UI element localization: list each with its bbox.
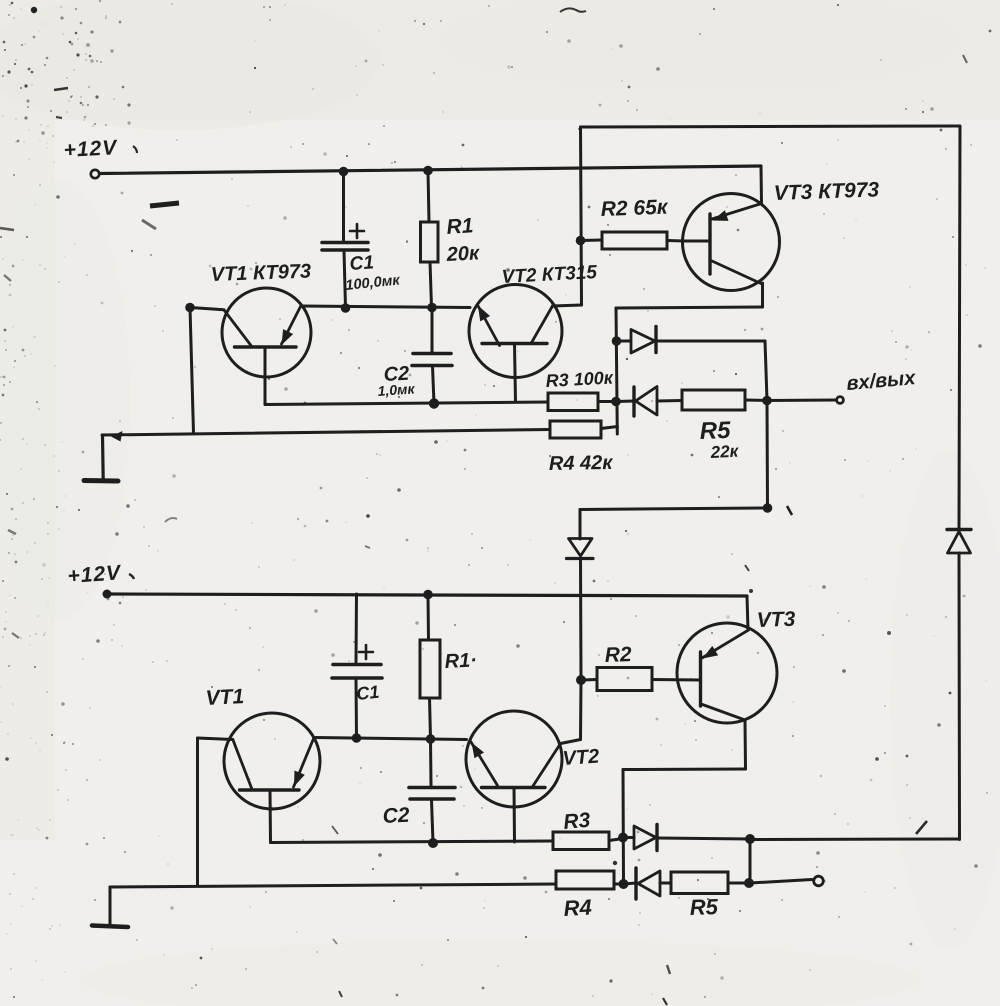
junction dot at VT1 left corner	[185, 303, 195, 313]
junction: R1/C2 node (bottom)	[426, 734, 436, 744]
svg-text:R5: R5	[699, 417, 731, 445]
wire: bus y738 left corner to VT1	[198, 738, 233, 740]
transistor VT1 (bottom)	[224, 713, 320, 809]
resistor R4 (bottom)	[556, 871, 614, 889]
+12V input terminal (top)	[91, 170, 99, 178]
wire: VD3 cathode down to bottom R2 node	[579, 559, 583, 680]
ground symbol (bottom)	[109, 887, 112, 924]
svg-text:100,0мк: 100,0мк	[345, 272, 401, 294]
resistor R4 (top) 42к	[550, 421, 601, 438]
wire: VT2 collector to x580 vertical (bottom)	[561, 740, 581, 744]
diode VD1 (bottom)	[623, 836, 634, 839]
svg-text:22к: 22к	[709, 442, 740, 463]
wire: VT1 base lead down	[264, 348, 267, 405]
wire: y307 bus VT1 to VT2	[301, 306, 470, 308]
junction: R1 to +12V rail	[423, 166, 433, 176]
svg-text:R1·: R1·	[444, 649, 477, 673]
wire: VT2 base lead	[515, 344, 516, 402]
wire: x580 from R2 node down to VT2 collector	[579, 680, 583, 740]
svg-text:R2 65к: R2 65к	[600, 196, 669, 221]
junction: R2 node (bottom)	[576, 675, 586, 685]
junction: C1 bottom on bus	[341, 303, 351, 313]
svg-text:VT2: VT2	[562, 745, 600, 770]
resistor R2 (top) 65к	[581, 239, 603, 243]
wire: to output terminal (bottom)	[750, 880, 812, 884]
+12V terminal (bottom)	[103, 590, 112, 599]
svg-text:C2: C2	[382, 804, 410, 828]
wire: VT1 collector node to left corner	[190, 308, 224, 310]
wire: +12V rail (bottom)	[107, 594, 747, 596]
output terminal (bottom)	[814, 876, 824, 886]
wire: right edge vertical upper	[959, 126, 960, 529]
resistor R2 (bottom)	[581, 678, 597, 682]
wire: +12V rail (top)	[100, 166, 762, 174]
resistor R3 (bottom)	[553, 832, 609, 850]
wire: x580 down to diode VD3	[579, 510, 582, 540]
svg-text:+12V: +12V	[63, 136, 119, 162]
wire: VT3 collector bus y307	[616, 307, 763, 308]
junction: C2 bottom node (bottom circuit)	[428, 838, 438, 848]
wire: base bus y404 (VT1 base to R3)	[265, 402, 548, 405]
svg-text:R4: R4	[563, 895, 592, 921]
wire: collector bus y769 (bottom)	[623, 768, 746, 772]
junction: R3/D2 node	[611, 397, 621, 407]
wire: VT3 emitter to rail (bottom)	[747, 596, 748, 630]
capacitor C2 (bottom)	[429, 739, 433, 785]
arrow tick on ground rail	[111, 431, 123, 442]
resistor R3 (top) 100к	[548, 393, 598, 411]
junction: output bus node (bottom)	[745, 834, 755, 844]
resistor R5 (bottom)	[671, 872, 728, 894]
wire: vertical x616 diode ladder	[616, 308, 617, 434]
svg-text:20к: 20к	[445, 242, 480, 266]
junction: C2 bottom on base bus	[429, 398, 439, 408]
transistor VT1 (top) KT973	[222, 288, 311, 377]
output terminal (top)	[837, 397, 844, 404]
junction: C1 bottom node	[352, 733, 362, 743]
svg-text:R3 100к: R3 100к	[545, 367, 614, 391]
wire: VT1 left vertical (bottom)	[196, 738, 199, 886]
wire: VT3 emitter to +12V rail	[760, 167, 764, 205]
wire: VT1 left vertical to ground rail	[190, 308, 194, 434]
diode VD2 (bottom)	[624, 883, 637, 884]
junction: R4/D2 node (bottom)	[619, 879, 629, 889]
junction: R2 node	[576, 236, 586, 246]
svg-text:VT2 КТ315: VT2 КТ315	[501, 262, 598, 288]
svg-text:C1: C1	[349, 252, 375, 275]
wire: VT2 base lead (bottom)	[513, 788, 517, 842]
resistor R1 (top)	[428, 171, 429, 222]
svg-text:R5: R5	[689, 894, 719, 920]
wire: bus y738 VT1 to VT2	[314, 738, 467, 740]
wire: output node down x767	[766, 403, 770, 508]
wire: vertical x623 diode ladder (bottom)	[622, 770, 626, 885]
wire: ground rail (top)	[102, 430, 550, 436]
ground symbol (top)	[101, 435, 105, 480]
capacitor C1 (bottom)	[355, 594, 359, 662]
svg-text:C1: C1	[355, 682, 380, 704]
wire: right edge vertical lower	[958, 553, 962, 840]
wire: VT2 collector to R2 node vertical	[553, 305, 582, 306]
junction: corner dot x767/y509	[763, 503, 773, 513]
transistor VT2 (top) KT315	[469, 285, 562, 378]
wire: output bus to right edge (bottom)	[750, 838, 960, 842]
svg-text:VT3 КТ973: VT3 КТ973	[773, 178, 879, 205]
diode VD3 (middle, pointing down)	[569, 539, 593, 557]
wire: y509 horizontal	[580, 508, 768, 510]
junction: output node	[762, 396, 772, 406]
wire: to output terminal	[767, 399, 837, 403]
junction: D1 anode	[612, 336, 622, 346]
svg-text:VT1 КТ973: VT1 КТ973	[210, 261, 311, 286]
wire: VT3 collector down (bottom)	[744, 720, 748, 769]
svg-text:VT3: VT3	[756, 608, 796, 632]
junction: D1 anode (bottom)	[618, 833, 628, 843]
resistor R1 (bottom)	[427, 595, 431, 641]
transistor VT2 (bottom)	[466, 711, 562, 807]
capacitor C1 (top)	[342, 172, 345, 240]
capacitor C2 (top)	[431, 308, 434, 352]
transistor VT3 (bottom)	[677, 623, 777, 723]
junction: R1 to rail (bottom)	[423, 590, 433, 600]
svg-text:вх/вых: вх/вых	[846, 367, 918, 395]
transistor VT3 (top) KT973	[683, 194, 780, 291]
wire: top line y127	[581, 126, 960, 127]
resistor R5 (top) 22к	[682, 390, 745, 410]
wire: base bus y842 (bottom)	[271, 841, 554, 843]
wire: VD1 cathode down to output node	[765, 341, 767, 400]
svg-text:R1: R1	[446, 214, 474, 239]
diode VD1 (top)	[617, 340, 631, 343]
wire: VT1 base lead (bottom)	[269, 791, 273, 843]
svg-text:R4 42к: R4 42к	[549, 452, 614, 475]
svg-text:VT1: VT1	[205, 685, 245, 710]
wire: vertical x580 from top line to VT2 collector	[581, 127, 582, 305]
svg-text:R3: R3	[562, 809, 591, 834]
svg-text:+12V: +12V	[67, 561, 123, 588]
wire: VT3 collector down	[761, 283, 764, 307]
junction: R1/C2 on bus	[427, 303, 437, 313]
wire: ground rail (bottom)	[110, 884, 556, 887]
wire: x750 down to R5 (bottom)	[749, 839, 752, 883]
svg-text:1,0мк: 1,0мк	[377, 380, 416, 399]
diode VD2 (top)	[616, 400, 634, 404]
svg-text:R2: R2	[604, 643, 632, 667]
diode VD4 (right edge, pointing up)	[947, 528, 971, 531]
junction: R5 right node (bottom)	[744, 878, 754, 888]
junction: C1 to +12V rail	[339, 167, 349, 177]
